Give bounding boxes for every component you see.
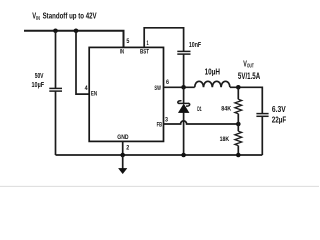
- wire bottom ground rail: [56, 154, 263, 156]
- resistor R1 84K: [235, 87, 242, 124]
- svg-text:OUT: OUT: [247, 64, 254, 70]
- wire FB with hop over diode: [164, 121, 239, 124]
- wire EN to pin 4: [76, 31, 90, 94]
- page rule line: [0, 185, 319, 187]
- svg-text:BST: BST: [140, 48, 149, 55]
- svg-text:10µF: 10µF: [32, 80, 45, 89]
- pin 5 IN: [120, 39, 130, 56]
- capacitor C1 50V 10uF: [49, 31, 62, 155]
- inductor L1 10uH: [195, 81, 230, 87]
- diode D1 schottky: [178, 87, 190, 155]
- wire VIN top rail: [24, 31, 124, 48]
- svg-text:IN: IN: [120, 49, 124, 56]
- wire GND pin to rail: [122, 141, 124, 155]
- svg-text:D1: D1: [197, 107, 202, 113]
- value label 50V 10uF: [32, 71, 45, 89]
- svg-text:10µH: 10µH: [205, 66, 220, 76]
- svg-text:IN: IN: [36, 16, 40, 22]
- svg-text:EN: EN: [91, 91, 97, 98]
- node GND junction dot: [120, 153, 125, 158]
- node VIN label: [32, 11, 97, 22]
- svg-text:GND: GND: [117, 134, 128, 141]
- value label 6.3V 22uF: [272, 104, 287, 124]
- wire SW to inductor: [164, 86, 195, 88]
- capacitor C2 10nF: [177, 51, 190, 87]
- node FB junction dot: [236, 122, 241, 127]
- svg-text:10nF: 10nF: [189, 40, 201, 49]
- wire inductor to VOUT corner: [230, 87, 262, 113]
- node VOUT junction dot: [236, 85, 241, 90]
- svg-text:FB: FB: [157, 122, 163, 129]
- pin 2 GND: [117, 134, 129, 151]
- svg-text:50V: 50V: [35, 71, 44, 80]
- capacitor C3 22uF output: [256, 114, 268, 155]
- svg-text:84K: 84K: [221, 105, 231, 112]
- wire BST boost loop: [144, 28, 183, 51]
- svg-text:Standoff up to 42V: Standoff up to 42V: [43, 11, 97, 21]
- resistor R2 18K: [235, 124, 242, 155]
- svg-text:22µF: 22µF: [272, 114, 287, 124]
- svg-text:5V/1.5A: 5V/1.5A: [238, 71, 260, 82]
- pin 6 SW: [154, 80, 169, 92]
- pin 4 EN: [85, 86, 98, 98]
- node R2 junction dot: [236, 153, 241, 158]
- ground symbol: [119, 155, 127, 174]
- op-amp U1 regulator box: [89, 47, 163, 141]
- node VOUT label: [238, 60, 260, 82]
- svg-text:SW: SW: [154, 85, 161, 92]
- pin 3 FB: [157, 118, 169, 129]
- node diode junction dot: [181, 153, 186, 158]
- pin 1 BST: [140, 41, 149, 55]
- node SW junction dot: [181, 85, 186, 90]
- svg-text:6.3V: 6.3V: [272, 104, 286, 114]
- svg-text:18K: 18K: [220, 136, 230, 143]
- node junction dot EN: [74, 29, 79, 34]
- node junction dot C1 top: [53, 29, 58, 34]
